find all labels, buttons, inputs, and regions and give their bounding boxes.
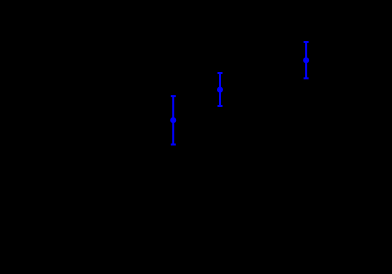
- bottom cap 3: [304, 77, 309, 79]
- marker 1: [170, 117, 176, 123]
- wire: vertical error line 2: [219, 73, 221, 106]
- error bar 1: [171, 96, 176, 144]
- bottom cap 1: [171, 144, 176, 146]
- error bar 3: [304, 42, 309, 78]
- marker 3: [303, 57, 309, 63]
- wire: vertical error line 3: [305, 42, 307, 78]
- top cap 3: [304, 41, 309, 43]
- top cap 1: [171, 95, 176, 97]
- wire: vertical error line 1: [172, 96, 174, 144]
- marker 2: [217, 87, 223, 93]
- top cap 2: [218, 72, 223, 74]
- bottom cap 2: [218, 105, 223, 107]
- error bar 2: [218, 73, 223, 106]
